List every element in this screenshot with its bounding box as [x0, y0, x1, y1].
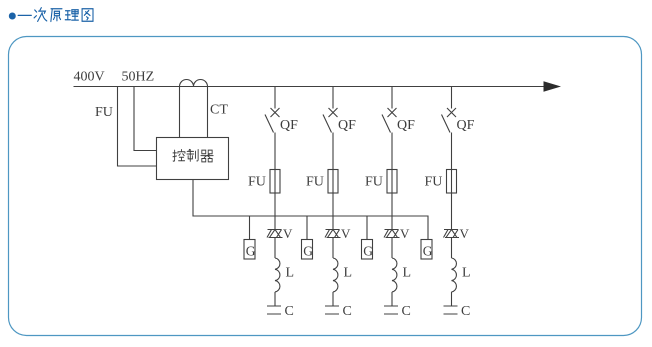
次 [34, 8, 47, 22]
svg-text:V: V [283, 226, 293, 241]
svg-text:V: V [400, 226, 410, 241]
wire: inductor to capacitor C4 [451, 292, 453, 306]
wire: QF1 to fuse FU1 [274, 133, 276, 170]
理 [65, 10, 78, 20]
TVS arrester ZV3 [384, 230, 400, 238]
svg-text:400V: 400V [74, 70, 105, 85]
wire: inductor to capacitor C1 [274, 292, 276, 306]
branch 2 [323, 87, 341, 315]
svg-text:QF: QF [338, 118, 356, 133]
svg-text:C: C [343, 304, 352, 319]
svg-text:G: G [246, 244, 256, 259]
wire: QF2 to fuse FU2 [332, 133, 334, 170]
wire: arrester to inductor L4 [451, 238, 453, 259]
breaker QF4 [442, 108, 457, 133]
wire: QF3 to fuse FU3 [391, 133, 393, 170]
svg-text:50HZ: 50HZ [122, 70, 155, 85]
wire: inductor to capacitor C3 [391, 292, 393, 306]
wire: arrester to inductor L2 [332, 238, 334, 259]
gap box G4 [421, 240, 432, 260]
inductor L1 [275, 258, 280, 292]
svg-text:V: V [341, 226, 351, 241]
控 [173, 150, 185, 162]
breaker QF3 [382, 108, 397, 133]
TVS arrester ZV4 [444, 230, 460, 238]
capacitor C2 [325, 306, 339, 314]
inductor L4 [452, 258, 457, 292]
svg-text:L: L [403, 266, 412, 281]
breaker QF2 [323, 108, 338, 133]
wire: arrester to inductor L1 [274, 238, 276, 259]
wire: drop to controller (right) [134, 87, 157, 151]
图 [82, 9, 93, 22]
svg-text:G: G [423, 244, 433, 259]
title bullet [9, 13, 16, 20]
svg-text:QF: QF [457, 118, 475, 133]
svg-text:QF: QF [280, 118, 298, 133]
wire: main bus 400V [74, 86, 545, 88]
current transformer CT [180, 80, 208, 87]
svg-text:G: G [303, 244, 313, 259]
gap box G3 [362, 240, 373, 260]
TVS arrester ZV2 [325, 230, 341, 238]
capacitor C4 [444, 306, 458, 314]
inductor L2 [333, 258, 338, 292]
wire: bus to QF2 [332, 87, 334, 109]
svg-text:L: L [344, 266, 353, 281]
gap box G1 [244, 240, 255, 260]
wire: through fuse to arrester [451, 170, 453, 230]
fuse FU4 [447, 170, 457, 194]
wire: through fuse to arrester [332, 170, 334, 230]
svg-text:C: C [285, 304, 294, 319]
svg-text:G: G [363, 244, 373, 259]
svg-text:V: V [460, 226, 470, 241]
wire: through fuse to arrester [391, 170, 393, 230]
svg-text:CT: CT [210, 103, 228, 118]
原 [51, 9, 62, 22]
wire: inductor to capacitor C2 [332, 292, 334, 306]
wire: drop to G2 [306, 216, 308, 240]
capacitor C3 [384, 306, 398, 314]
wire: arrester to inductor L3 [391, 238, 393, 259]
wire: drop to controller (left, FU line) [118, 87, 157, 167]
capacitor C1 [267, 306, 281, 314]
title text 一次原理图 [18, 8, 93, 22]
fuse FU2 [328, 170, 338, 194]
svg-text:FU: FU [365, 175, 383, 190]
wire: bus to QF3 [391, 87, 393, 109]
fuse FU3 [387, 170, 397, 194]
svg-text:QF: QF [397, 118, 415, 133]
branch 1 [265, 87, 283, 315]
svg-text:C: C [461, 304, 470, 319]
svg-text:L: L [286, 266, 295, 281]
gap box G2 [302, 240, 313, 260]
wire: QF4 to fuse FU4 [451, 133, 453, 170]
breaker QF1 [265, 108, 280, 133]
arrowhead of bus [544, 81, 562, 92]
svg-text:FU: FU [248, 175, 266, 190]
inductor L3 [392, 258, 397, 292]
label 控制器 (controller) [173, 149, 213, 162]
branch 4 [442, 87, 460, 315]
wire: drop to G3 [366, 216, 368, 240]
svg-text:FU: FU [306, 175, 324, 190]
一 [18, 14, 31, 16]
svg-text:C: C [402, 304, 411, 319]
wire: controller output to distribution rail [193, 180, 428, 240]
器 [201, 150, 213, 162]
wire: bus to QF4 [451, 87, 453, 109]
fuse FU1 [270, 170, 280, 194]
TVS arrester ZV1 [267, 230, 283, 238]
制 [187, 149, 198, 161]
wire: bus to QF1 [274, 87, 276, 109]
svg-text:L: L [462, 266, 471, 281]
wire: drop to G1 [249, 216, 251, 240]
branch 3 [382, 87, 400, 315]
svg-text:FU: FU [425, 175, 443, 190]
wire: through fuse to arrester [274, 170, 276, 230]
svg-text:FU: FU [95, 105, 113, 120]
controller box U1 [157, 138, 229, 180]
